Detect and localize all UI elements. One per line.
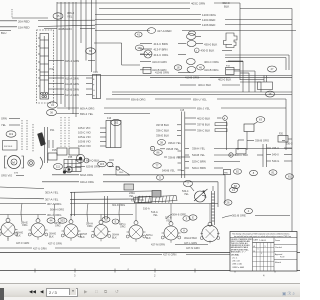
svg-text:.X ± .1: .X ± .1 — [232, 258, 237, 260]
svg-text:410-B ORG: 410-B ORG — [204, 68, 219, 72]
wire 400-C ORG route — [228, 61, 243, 92]
wire 427-G GRN — [48, 242, 62, 246]
connector 65 — [86, 48, 96, 54]
svg-text:413-C ORG: 413-C ORG — [154, 53, 169, 57]
svg-text:430-0 BLK: 430-0 BLK — [204, 42, 217, 46]
label P30 — [50, 68, 55, 71]
wire 301-D ORG label — [112, 204, 125, 207]
svg-text:P21: P21 — [50, 129, 55, 132]
junction circle X — [140, 50, 152, 58]
wire 410-D GRN — [140, 59, 195, 65]
flag PED — [116, 166, 130, 175]
bus 303-A YEL — [0, 187, 152, 194]
svg-text:604A ORG: 604A ORG — [80, 173, 93, 177]
column J4 ladder — [212, 186, 215, 225]
svg-text:YEL: YEL — [153, 214, 158, 217]
wire 427-M GRN — [151, 243, 208, 247]
connector 95 — [102, 217, 110, 222]
connector 162 — [111, 119, 121, 125]
wire 230A YEL label — [129, 192, 135, 198]
wire 402-D BLK — [185, 116, 222, 120]
svg-text:BLK: BLK — [16, 235, 21, 238]
wire 537-B YEL — [165, 217, 172, 223]
connector strip hatched — [134, 196, 178, 203]
svg-text:402-D BLK: 402-D BLK — [197, 116, 210, 120]
connector P25 — [48, 149, 57, 160]
connector 43 — [48, 102, 58, 108]
wire feed L5 — [135, 204, 137, 221]
svg-text:1206 RED: 1206 RED — [202, 23, 215, 27]
wire 410-B ORG route — [240, 73, 249, 92]
wire 30H-E BLK labels — [16, 232, 237, 241]
wire 427-K GRN — [120, 248, 240, 257]
bus 304-F ORG — [0, 202, 218, 206]
connector 84 — [232, 183, 240, 188]
viewer toolbar — [0, 283, 300, 298]
junction box 410E — [258, 76, 273, 90]
svg-text:303-A YEL: 303-A YEL — [45, 190, 59, 194]
wire 540-B YEL — [192, 153, 236, 157]
svg-text:G: G — [93, 90, 95, 92]
wire 540-C BLK — [229, 153, 263, 157]
svg-text:417-A RED: 417-A RED — [157, 29, 171, 33]
connector C15 column — [180, 110, 185, 178]
svg-text:50H-H ORG: 50H-H ORG — [50, 208, 64, 212]
wire BLU stub — [0, 31, 11, 36]
wire feed L6 — [170, 204, 172, 222]
relay K1 — [187, 34, 204, 47]
svg-text:427-U GRN: 427-U GRN — [33, 247, 47, 251]
wire 337B BLK left — [156, 123, 181, 127]
junction box 302 — [3, 141, 18, 151]
connector 5 — [183, 216, 190, 221]
bus 836-J YEL — [197, 107, 286, 111]
svg-text:Checked: Checked — [275, 247, 282, 249]
svg-text:30H-6 ORE: 30H-6 ORE — [172, 213, 186, 217]
junction B2 — [150, 146, 154, 150]
svg-text:307-A ORG: 307-A ORG — [47, 202, 61, 206]
svg-text:ORG: ORG — [22, 224, 28, 227]
wire 430-D BLK — [195, 48, 233, 53]
wire 529-C BRN lower — [192, 166, 223, 170]
svg-text:415-B GRN: 415-B GRN — [65, 87, 79, 91]
title block — [230, 232, 297, 272]
svg-text:105-D VIO: 105-D VIO — [78, 144, 91, 148]
black junction dot — [63, 171, 66, 174]
svg-text:YEL: YEL — [67, 15, 73, 19]
svg-text:301-D ORG: 301-D ORG — [112, 204, 125, 207]
bus 1206 RED — [95, 23, 292, 27]
svg-text:336-C BLK: 336-C BLK — [156, 129, 169, 133]
junction box F31a — [124, 184, 134, 190]
svg-text:ORG VIO: ORG VIO — [1, 174, 12, 178]
svg-text:415-2 GRN: 415-2 GRN — [65, 59, 79, 63]
svg-text:BLU: BLU — [1, 31, 6, 35]
svg-text:336-D YEL: 336-D YEL — [168, 141, 182, 145]
svg-text:15A RED: 15A RED — [18, 25, 30, 29]
svg-text:PED: PED — [119, 172, 124, 174]
connector 41 — [135, 32, 142, 37]
wire 400-C BLK — [180, 83, 240, 87]
zone ruler — [0, 268, 300, 278]
connector 115 — [98, 161, 113, 167]
bus 836-U YEL — [193, 97, 286, 101]
connector 16 — [266, 91, 275, 97]
connector 44 — [47, 218, 55, 223]
wire 427-N GRN — [186, 246, 200, 250]
svg-text:PED: PED — [224, 173, 229, 175]
pen mark — [38, 133, 46, 147]
wire 105-F VIO — [78, 126, 106, 130]
svg-text:D: D — [159, 176, 161, 180]
svg-text:529-C BRN: 529-C BRN — [192, 160, 206, 164]
connector F20 box — [278, 134, 292, 143]
terminal ring 2 — [66, 166, 73, 173]
svg-text:414-B GRN: 414-B GRN — [65, 82, 79, 86]
svg-text:836-J YEL: 836-J YEL — [197, 107, 210, 111]
connector P21 column — [45, 127, 56, 163]
wire feed L3 — [70, 215, 72, 220]
lamp L7 — [200, 222, 220, 243]
svg-text:1: 1 — [258, 249, 259, 251]
wire 336-C BLK left — [156, 129, 181, 133]
svg-text:400-C BLK: 400-C BLK — [198, 83, 211, 87]
svg-text:BLK: BLK — [80, 236, 85, 239]
wire 30H-R BLK — [184, 236, 197, 240]
wire 400-C ORG — [204, 60, 243, 64]
wire 417-A GRN — [49, 93, 93, 97]
wire 529-C BRN upper — [192, 160, 240, 164]
connector F14 — [93, 71, 101, 99]
wire 415-2 GRN — [49, 59, 96, 63]
svg-text:BLK: BLK — [49, 236, 54, 239]
connector 38 — [158, 140, 166, 146]
wire 336-C BLK right — [185, 128, 227, 132]
svg-text:ANGULAR ± 1° ✓: ANGULAR ± 1° ✓ — [231, 250, 246, 253]
svg-text:417-A GRN: 417-A GRN — [65, 93, 79, 97]
wire 415-B GRN — [49, 87, 93, 91]
wire 105-E VIO — [78, 135, 106, 139]
node bus main pair — [40, 76, 292, 78]
svg-text:YEL: YEL — [184, 193, 189, 196]
svg-text:413-F BRN: 413-F BRN — [154, 47, 168, 51]
wire feed L7 — [209, 204, 211, 223]
connector 503 — [58, 218, 67, 223]
svg-text:P30: P30 — [50, 68, 55, 71]
wire 513-A YEL — [151, 211, 158, 217]
svg-text:336-C: 336-C — [272, 146, 279, 150]
wire plug drop — [225, 3, 289, 80]
svg-text:E: E — [115, 220, 117, 224]
svg-text:F14: F14 — [94, 71, 99, 74]
svg-text:20A RED: 20A RED — [18, 19, 30, 23]
svg-text:427-L GRN: 427-L GRN — [184, 241, 197, 245]
connector box 410 — [143, 67, 190, 74]
svg-text:E: E — [192, 216, 194, 220]
connector D — [157, 175, 164, 180]
connector 63 — [254, 117, 265, 124]
wire 604-A ORG — [52, 173, 225, 203]
connector 77 — [153, 163, 162, 168]
switch S1 body — [38, 34, 49, 100]
wire 410-B GRN — [140, 67, 196, 73]
svg-text:336-C BLK: 336-C BLK — [197, 128, 210, 132]
connector 81 right — [286, 174, 294, 179]
svg-text:119: 119 — [9, 132, 14, 136]
svg-text:105-C VIO: 105-C VIO — [78, 131, 91, 135]
lamp L4 — [91, 220, 111, 241]
svg-text:307-A YEL: 307-A YEL — [45, 197, 59, 201]
connector 166 — [135, 45, 143, 51]
svg-text:7-16-91: 7-16-91 — [259, 240, 267, 242]
svg-text:650-Q BLK: 650-Q BLK — [86, 158, 100, 162]
wire YEL stub left — [1, 123, 20, 127]
svg-text:403C ORN: 403C ORN — [191, 2, 205, 6]
svg-text:1204 RED: 1204 RED — [202, 18, 215, 22]
svg-text:427-G GRN: 427-G GRN — [48, 242, 62, 246]
terminal rings — [76, 154, 89, 163]
svg-text:BLK: BLK — [146, 237, 151, 240]
svg-text:YEL: YEL — [129, 195, 134, 198]
svg-text:430-D BLK: 430-D BLK — [201, 48, 215, 52]
rheostat R1 — [194, 189, 208, 202]
wire dashed drop right — [61, 117, 69, 148]
svg-text:427-M GRN: 427-M GRN — [151, 243, 165, 247]
wire 336-D YEL — [168, 141, 182, 145]
wire ORG VIO — [1, 174, 24, 178]
svg-text:609-A ORG: 609-A ORG — [80, 106, 94, 110]
wire 30H-6 ORE label — [166, 213, 186, 219]
svg-text:Material: Material — [275, 261, 282, 264]
svg-text:1: 1 — [265, 246, 266, 248]
svg-text:336-H YEL: 336-H YEL — [192, 147, 206, 151]
wire GRN stub left — [1, 117, 20, 121]
svg-text:336-B ORG: 336-B ORG — [255, 139, 269, 143]
wire 410-E ORG — [185, 76, 230, 80]
connector block F16 — [106, 117, 121, 148]
connector pair — [28, 160, 34, 166]
wire 402-0 BLK — [218, 77, 264, 81]
svg-text:836-2 YEL: 836-2 YEL — [80, 112, 94, 116]
wire 625-B ORG — [75, 165, 114, 169]
connector 46 — [197, 65, 205, 70]
wire 105-B VIO — [78, 140, 106, 144]
svg-text:111: 111 — [56, 165, 60, 169]
svg-text:302 BLK: 302 BLK — [4, 146, 13, 148]
wire 650-Q BLK — [75, 158, 114, 162]
wire 402-C BLK label — [222, 1, 292, 252]
wire bundle vertical mid — [81, 0, 96, 72]
junction box 540 — [236, 149, 246, 154]
lamp L3 — [61, 220, 81, 241]
wire 50H-H ORG — [50, 208, 64, 212]
svg-text:162: 162 — [114, 121, 119, 125]
wire feed pipe L3 — [72, 192, 75, 216]
wire 540-0 right — [272, 153, 292, 157]
resistor block — [152, 191, 161, 198]
svg-text:1: 1 — [261, 253, 262, 255]
switch S1 contacts — [41, 92, 48, 97]
wire 336-G right — [282, 141, 293, 146]
svg-text:GRN: GRN — [1, 117, 7, 121]
svg-text:.XX ± .03: .XX ± .03 — [232, 261, 240, 263]
connector 36 — [47, 109, 57, 115]
wire 410-B ORG right — [204, 68, 240, 72]
top boxes — [49, 140, 79, 155]
connector 14 — [230, 187, 238, 192]
svg-text:▲: ▲ — [127, 268, 129, 271]
junction box 63 — [238, 124, 254, 150]
svg-text:336-G: 336-G — [286, 143, 293, 146]
svg-text:427-F GRN: 427-F GRN — [16, 241, 29, 245]
fuse 20A RED — [0, 19, 95, 23]
svg-text:Approved: Approved — [275, 253, 282, 256]
connector A — [181, 228, 187, 233]
svg-text:410-D GRN: 410-D GRN — [152, 60, 167, 64]
svg-text:540-B YEL: 540-B YEL — [162, 169, 175, 173]
wire 306-2 YEL feed — [12, 9, 48, 18]
svg-text:ORG: ORG — [55, 225, 61, 228]
connector 111 — [54, 164, 63, 170]
lamp L6 — [161, 222, 181, 243]
wire 040-A ORG — [42, 180, 218, 207]
svg-text:415-A GRN: 415-A GRN — [65, 76, 79, 80]
wire 336-H YEL — [192, 147, 292, 151]
wire 540-B YEL left — [162, 169, 184, 173]
connector PED box — [224, 169, 242, 175]
label 771 — [14, 172, 19, 175]
svg-text:301-B ORE: 301-B ORE — [232, 214, 246, 218]
wire 400-D BLK route — [240, 82, 261, 92]
wire 609-A ORG — [57, 106, 196, 110]
connector 4 bubble — [245, 208, 253, 213]
connector 47 — [268, 66, 277, 72]
svg-text:A: A — [183, 229, 185, 233]
fuse 15A RED — [0, 25, 95, 29]
wire 336-B ORG — [247, 139, 269, 143]
motor M1 — [5, 156, 24, 169]
connector F31 column — [105, 196, 136, 219]
svg-text:540-0: 540-0 — [272, 153, 279, 157]
svg-text:510-A: 510-A — [143, 208, 150, 211]
svg-text:105-B VIO: 105-B VIO — [78, 140, 91, 144]
wire 415-A GRN — [49, 76, 93, 80]
svg-text:427-K GRN: 427-K GRN — [163, 253, 177, 257]
svg-text:R.W.: R.W. — [280, 257, 285, 259]
wire 427-F GRN — [8, 237, 29, 245]
wire 403B GRN — [44, 27, 95, 31]
wire feed L1 — [7, 215, 9, 219]
svg-text:UNLESS OTHERWISE SPEC-: UNLESS OTHERWISE SPEC- — [231, 239, 253, 241]
lamp L2 — [28, 219, 48, 240]
svg-text:503: 503 — [60, 219, 65, 223]
column J3 — [263, 144, 271, 167]
wire 836-2 YEL — [57, 112, 150, 116]
connector 8 — [250, 170, 258, 175]
svg-text:040-A ORG: 040-A ORG — [80, 180, 94, 184]
connector 81 mid — [269, 170, 277, 175]
label 306-2 YEL — [67, 11, 75, 19]
wire 413-C ORG — [140, 53, 186, 57]
svg-text:337-B BLK: 337-B BLK — [197, 122, 210, 126]
svg-text:DIMENSIONS IN INCHES: DIMENSIONS IN INCHES — [231, 245, 250, 247]
wire 553-A YEL — [143, 208, 150, 211]
wire 336-E BLK left — [156, 133, 181, 137]
wire 540-G right — [272, 159, 292, 163]
svg-text:777: 777 — [14, 172, 19, 175]
plug P1 outline — [224, 33, 238, 48]
wire feed L4 — [100, 215, 102, 221]
svg-text:410-B ORN: 410-B ORN — [155, 71, 169, 75]
lamp L5 — [126, 221, 146, 242]
svg-text:166: 166 — [137, 46, 142, 50]
svg-text:1209 ORG: 1209 ORG — [202, 13, 217, 17]
wire 337-B BLK — [185, 122, 227, 126]
connector E2 — [112, 219, 119, 224]
wire 105-C VIO — [78, 131, 106, 135]
svg-text:337-B BLK: 337-B BLK — [156, 123, 169, 127]
bus pair upper — [112, 91, 292, 93]
bus 836-B ORG — [106, 97, 191, 101]
bus 301-F ORG — [0, 213, 133, 217]
junction A1 — [223, 116, 228, 121]
label 532-4 YEL — [182, 190, 189, 196]
svg-text:YEL: YEL — [1, 123, 6, 127]
connector 18 — [174, 65, 182, 70]
svg-text:F30: F30 — [140, 199, 145, 202]
connector 55 — [53, 13, 63, 19]
bus 1209 ORG — [95, 13, 217, 17]
connector 7 bubble — [184, 181, 195, 192]
svg-text:336-E BLK: 336-E BLK — [156, 133, 169, 137]
svg-text:BLK: BLK — [112, 237, 117, 240]
wire dashed drop — [22, 120, 33, 152]
connector 103 — [189, 215, 197, 220]
svg-text:413-C BRN: 413-C BRN — [154, 42, 168, 46]
svg-text:410-E ORG: 410-E ORG — [185, 76, 199, 80]
wire 105-D VIO — [78, 144, 106, 148]
svg-text:.XXXX ± .0005: .XXXX ± .0005 — [232, 267, 244, 269]
svg-text:ORG: ORG — [120, 226, 126, 229]
bracket clamp — [40, 157, 43, 169]
wire 427-L GRN — [184, 241, 197, 245]
svg-text:836-B ORG: 836-B ORG — [131, 97, 146, 101]
connector 86 — [154, 150, 163, 155]
svg-text:P35: P35 — [68, 156, 73, 159]
svg-text:Drawn: Drawn — [275, 239, 280, 242]
svg-text:30H-R BLK: 30H-R BLK — [184, 236, 197, 240]
svg-text:105-E VIO: 105-E VIO — [78, 135, 91, 139]
svg-text:YEL: YEL — [166, 220, 171, 223]
svg-text:C15: C15 — [180, 110, 185, 112]
connector 119 — [6, 131, 16, 137]
svg-text:ORG: ORG — [87, 225, 93, 228]
svg-text:836-U YEL: 836-U YEL — [193, 97, 207, 101]
bus 1204 RED — [95, 18, 292, 22]
wire 336-C right — [272, 146, 292, 150]
svg-text:336-B YEL: 336-B YEL — [168, 155, 181, 159]
wire 430-0 BLK — [204, 42, 232, 46]
svg-text:336-B YEL: 336-B YEL — [166, 147, 179, 151]
wire 30H-E ORG side labels — [21, 221, 126, 228]
wire 301-B ORE — [222, 214, 290, 219]
wire bundle vertical left — [57, 2, 76, 117]
svg-text:F16: F16 — [107, 117, 112, 120]
svg-text:P25: P25 — [52, 149, 57, 152]
connector 2 bubble — [189, 31, 196, 35]
connector 26 — [224, 200, 232, 205]
lamp L1 — [0, 218, 18, 239]
